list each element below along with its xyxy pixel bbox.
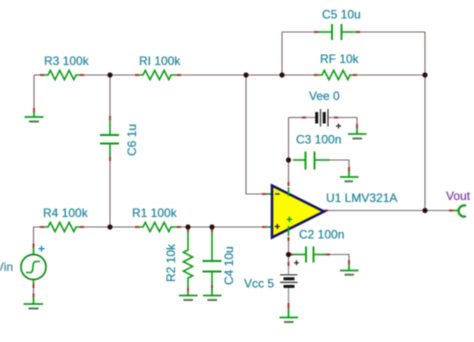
svg-text:RI 100k: RI 100k: [139, 54, 181, 68]
svg-text:C4 10u: C4 10u: [222, 246, 236, 285]
svg-text:C5 10u: C5 10u: [322, 8, 361, 22]
svg-text:U1 LMV321A: U1 LMV321A: [326, 191, 397, 205]
svg-text:R4 100k: R4 100k: [43, 206, 89, 220]
svg-text:R2 10k: R2 10k: [164, 243, 178, 282]
svg-text:R3 100k: R3 100k: [44, 54, 90, 68]
svg-text:Vout: Vout: [446, 189, 471, 203]
svg-text:C2 100n: C2 100n: [299, 228, 344, 242]
svg-text:R1 100k: R1 100k: [132, 206, 178, 220]
svg-text:RF 10k: RF 10k: [320, 52, 360, 66]
svg-text:Vcc 5: Vcc 5: [244, 277, 274, 291]
svg-text:Vee 0: Vee 0: [309, 89, 340, 103]
svg-text:Vin: Vin: [0, 260, 13, 274]
svg-text:C6 1u: C6 1u: [125, 124, 139, 156]
svg-text:C3 100n: C3 100n: [296, 133, 341, 147]
